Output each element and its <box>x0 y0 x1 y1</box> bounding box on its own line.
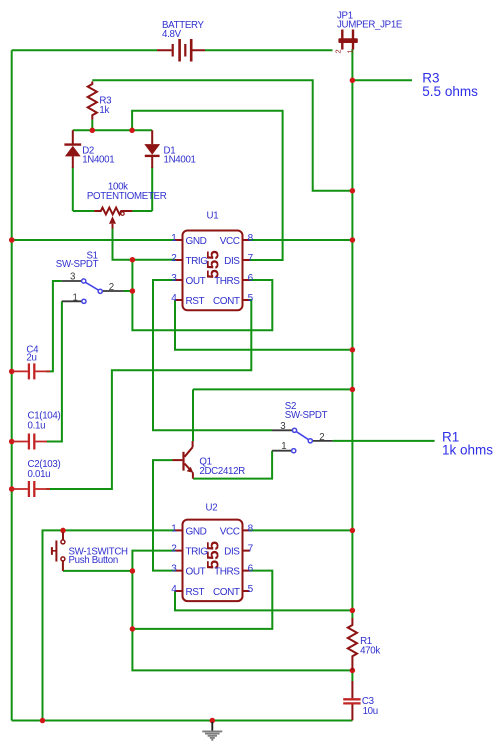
wire battery left <box>12 49 157 51</box>
junction dot 3 <box>350 237 356 243</box>
wire pot right lead <box>132 210 152 212</box>
ground <box>202 722 222 740</box>
svg-text:Push Button: Push Button <box>69 555 118 566</box>
svg-text:5: 5 <box>248 293 254 304</box>
svg-text:CONT: CONT <box>213 296 240 307</box>
svg-text:8: 8 <box>248 523 254 534</box>
svg-text:1: 1 <box>345 49 354 53</box>
wire bottom rail <box>12 720 353 722</box>
op-amp U2 555 body <box>175 520 250 602</box>
U1 pin names <box>186 236 241 307</box>
junction dot 12 <box>9 486 15 492</box>
junction dot 18 <box>130 626 136 632</box>
svg-text:OUT: OUT <box>186 276 206 287</box>
wire U1 VCC <box>250 239 353 241</box>
svg-text:CONT: CONT <box>213 587 240 598</box>
svg-text:SW-SPDT: SW-SPDT <box>56 259 99 270</box>
svg-text:1N4001: 1N4001 <box>82 154 114 165</box>
svg-text:U2: U2 <box>206 503 218 514</box>
svg-text:VCC: VCC <box>220 526 240 537</box>
diode D2 1N4001 <box>64 130 81 168</box>
capacitor C3 10u <box>343 681 360 720</box>
potentiometer 100k <box>94 208 132 229</box>
wire Q1 emitter to S2 pin1 <box>193 451 272 479</box>
switch S2 SW-SPDT <box>272 428 333 453</box>
svg-text:POTENTIOMETER: POTENTIOMETER <box>87 191 167 202</box>
svg-text:OUT: OUT <box>186 567 206 578</box>
U1 pin numbers <box>171 233 253 304</box>
svg-text:6: 6 <box>248 564 254 575</box>
svg-text:TRIG: TRIG <box>186 547 209 558</box>
wire diode top bus <box>73 129 152 131</box>
wire U2 GND to bottom rail <box>43 530 176 720</box>
svg-text:2u: 2u <box>26 352 36 363</box>
svg-text:5: 5 <box>248 584 254 595</box>
junction dot 16 <box>130 288 136 294</box>
svg-text:1: 1 <box>171 233 177 244</box>
op-amp U1 555 body <box>175 231 250 311</box>
junction dot 6 <box>350 528 356 534</box>
junction dot 21 <box>210 718 216 724</box>
svg-text:JUMPER_JP1E: JUMPER_JP1E <box>337 19 403 30</box>
svg-text:GND: GND <box>186 236 207 247</box>
svg-text:0.1u: 0.1u <box>28 420 46 431</box>
wire D1 bottom <box>151 167 153 211</box>
svg-text:6: 6 <box>248 273 254 284</box>
wire U2 THRS route <box>132 571 272 629</box>
junction dot 9 <box>9 237 15 243</box>
svg-text:THRS: THRS <box>214 276 240 287</box>
svg-text:2: 2 <box>319 432 324 443</box>
junction dot 11 <box>9 439 15 445</box>
wire main right rail <box>351 80 353 618</box>
switch S2 pin numbers <box>280 421 324 452</box>
wire Q1 collector to rail <box>193 388 352 390</box>
svg-text:0.01u: 0.01u <box>28 469 51 480</box>
jumper JP1 <box>334 30 358 54</box>
svg-text:1N4001: 1N4001 <box>164 154 196 165</box>
wire S2 pin2 to R1 net label <box>333 440 435 442</box>
wire push button to trig node <box>63 570 132 572</box>
push button SW-1SWITCH <box>52 532 65 571</box>
transistor Q1 2DC2412R <box>173 441 194 479</box>
svg-text:8: 8 <box>248 233 254 244</box>
wire U1 DIS route <box>132 111 283 260</box>
svg-text:3: 3 <box>171 564 177 575</box>
svg-text:4: 4 <box>171 293 177 304</box>
svg-text:2: 2 <box>171 253 177 264</box>
svg-text:DIS: DIS <box>224 547 240 558</box>
svg-text:3: 3 <box>70 272 75 283</box>
wire U1 RST route <box>175 300 352 350</box>
wire S1 pin1 to C1 <box>46 301 62 441</box>
wire U1 OUT to S2 pin3 <box>153 280 272 430</box>
svg-text:3: 3 <box>171 273 177 284</box>
node R1 net label <box>442 430 493 458</box>
junction dot 13 <box>90 128 96 134</box>
svg-text:2: 2 <box>109 282 114 293</box>
svg-text:2: 2 <box>171 544 177 555</box>
junction dot 2 <box>350 188 356 194</box>
junction dot 4 <box>350 347 356 353</box>
wire U2 OUT to Q1 base <box>153 460 175 570</box>
U2 pin numbers <box>171 523 253 595</box>
svg-text:470k: 470k <box>360 645 380 656</box>
junction dot 1 <box>350 78 356 84</box>
svg-text:TRIG: TRIG <box>186 256 209 267</box>
svg-text:2DC2412R: 2DC2412R <box>199 466 245 477</box>
svg-text:RST: RST <box>186 587 205 598</box>
svg-text:1: 1 <box>171 523 177 534</box>
wire R3 bottom to diode bus <box>91 120 93 131</box>
svg-text:3: 3 <box>280 421 285 432</box>
svg-text:1: 1 <box>73 292 78 303</box>
svg-text:7: 7 <box>248 544 254 555</box>
svg-text:GND: GND <box>186 526 207 537</box>
junction dot 14 <box>129 128 135 134</box>
junction dot 7 <box>350 608 356 614</box>
capacitor C1 0.1u <box>12 434 47 450</box>
U2 pin names <box>186 526 241 598</box>
junction dot 15 <box>130 257 136 263</box>
svg-text:4: 4 <box>171 584 177 595</box>
resistor R3 1k <box>88 82 97 120</box>
junction dot 19 <box>60 528 66 534</box>
wire battery right to JP1 <box>205 49 333 51</box>
wire R1 C3 node <box>351 670 353 681</box>
wire pot left lead <box>73 210 94 212</box>
svg-text:VCC: VCC <box>220 236 240 247</box>
wire left rail <box>11 50 13 720</box>
svg-text:4.8V: 4.8V <box>162 29 182 40</box>
svg-text:5.5 ohms: 5.5 ohms <box>422 84 478 99</box>
junction dot 10 <box>9 369 15 375</box>
svg-text:DIS: DIS <box>224 256 240 267</box>
wire JP1 pin1 down to rail <box>351 49 353 80</box>
diode D1 1N4001 <box>144 130 160 168</box>
wire R3 net label stub <box>352 79 412 81</box>
battery BT1 4.8V <box>157 39 205 62</box>
junction dot 5 <box>350 387 356 393</box>
junction dot 8 <box>350 668 356 674</box>
wire U2 RST route <box>175 591 352 610</box>
svg-text:THRS: THRS <box>214 567 240 578</box>
svg-text:2: 2 <box>334 49 343 53</box>
wire U1 THRS route <box>132 260 272 331</box>
wire U2 TRIG route <box>132 551 352 671</box>
junction dot 20 <box>40 718 46 724</box>
wire R3 top route <box>92 80 352 190</box>
wire U1 GND <box>12 239 175 241</box>
svg-text:1: 1 <box>281 441 286 452</box>
switch S1 SW-SPDT <box>62 279 124 304</box>
svg-text:10u: 10u <box>363 706 378 717</box>
wire D2 bottom <box>72 167 74 211</box>
wire wiper to U1 TRIG <box>113 229 176 260</box>
capacitor C2 0.01u <box>12 481 50 497</box>
svg-text:SW-SPDT: SW-SPDT <box>285 410 328 421</box>
switch S1 pin numbers <box>70 272 114 304</box>
svg-text:RST: RST <box>186 296 205 307</box>
wire S1 pin3 to C4 <box>46 281 62 371</box>
node R3 net label <box>422 71 478 99</box>
junction dot 17 <box>130 568 136 574</box>
svg-text:7: 7 <box>248 253 254 264</box>
capacitor C4 2u <box>12 363 50 379</box>
resistor R1 470k <box>348 618 357 670</box>
svg-text:1k ohms: 1k ohms <box>442 443 493 458</box>
wire U2 VCC <box>250 529 353 531</box>
wire Q1 collector up <box>192 389 194 441</box>
svg-text:U1: U1 <box>207 210 219 221</box>
wire U1 CONT to C2 <box>46 300 251 489</box>
wire S1 pin2 to node <box>124 290 133 292</box>
svg-text:1k: 1k <box>99 105 109 116</box>
